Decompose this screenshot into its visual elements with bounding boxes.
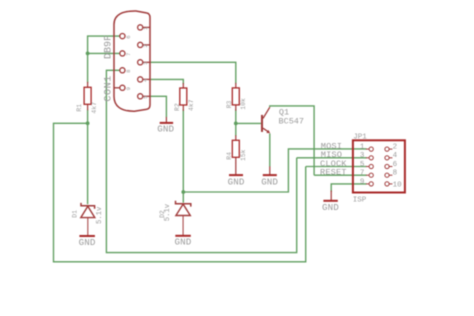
svg-text:9: 9: [360, 178, 365, 186]
JP1 pin 8: [385, 173, 393, 177]
svg-text:GND: GND: [175, 237, 192, 248]
resistor R1: [76, 82, 98, 114]
pin 2: [138, 42, 150, 47]
junction R1/D1 node: [86, 121, 90, 125]
wire pin6 to R1 column: [88, 36, 120, 83]
pin 3: [138, 60, 150, 65]
wire Q1 collector to RESET: [270, 106, 314, 175]
pin 6: [120, 34, 125, 39]
wire R1 bottom to node: [87, 110, 89, 124]
JP1 pin 6: [385, 164, 393, 168]
ground under D1: [79, 236, 96, 248]
ground under JP1 pin9: [322, 191, 339, 214]
svg-text:5: 5: [142, 96, 149, 99]
wire node to D1: [87, 123, 89, 204]
JP1 pin 9: [366, 182, 373, 186]
connector CON1 DB9F outline: [114, 11, 150, 111]
wire R2 bottom to node to D2: [182, 110, 184, 203]
svg-text:1: 1: [360, 144, 365, 152]
svg-text:5: 5: [360, 161, 365, 169]
svg-text:3: 3: [360, 152, 365, 160]
wire CLOCK row: [306, 166, 367, 168]
junction pin7/R1: [86, 52, 90, 56]
ground under Q1 emitter: [261, 166, 278, 187]
junction base node: [234, 122, 238, 126]
wire Q1 emitter to gnd: [269, 134, 271, 167]
junction MOSI/R2/D2 node: [181, 190, 185, 194]
wire pin5 to gnd: [150, 96, 167, 117]
resistor R3: [226, 83, 247, 111]
ground under R4: [228, 163, 245, 187]
connector JP1 box: [353, 140, 405, 192]
ground under DB9 pin5: [157, 117, 174, 135]
svg-text:R2: R2: [174, 103, 181, 111]
wire MOSI row: [183, 149, 366, 192]
pin 8: [120, 68, 125, 73]
svg-text:BC547: BC547: [279, 116, 305, 126]
svg-text:RESET: RESET: [320, 168, 347, 178]
svg-text:2: 2: [142, 44, 149, 47]
pin 5: [138, 94, 150, 99]
svg-text:8: 8: [125, 70, 132, 73]
svg-text:10k: 10k: [240, 98, 247, 110]
JP1 pin 10: [385, 182, 393, 186]
svg-text:GND: GND: [79, 237, 96, 248]
JP1 pin 3: [366, 156, 373, 160]
svg-text:D1: D1: [72, 210, 79, 218]
resistor R4: [226, 135, 247, 163]
svg-text:4k7: 4k7: [91, 102, 98, 114]
wire base node to Q1: [236, 122, 261, 124]
wire R3 bottom to node to R4 top: [235, 109, 237, 136]
svg-text:4: 4: [393, 152, 398, 160]
svg-text:R1: R1: [76, 104, 83, 112]
pin 4: [138, 77, 150, 82]
svg-text:3: 3: [142, 62, 149, 65]
pin 1: [138, 25, 150, 30]
svg-text:GND: GND: [261, 176, 278, 187]
JP1 pin 1: [366, 147, 373, 151]
svg-text:6: 6: [393, 161, 398, 169]
diode D1 zener 5.1v: [72, 203, 104, 236]
JP1 pin 2: [385, 147, 393, 151]
svg-text:6: 6: [125, 35, 132, 38]
svg-text:5.1v: 5.1v: [96, 206, 104, 224]
svg-text:7: 7: [125, 53, 132, 56]
wire node to outer loop: [54, 123, 306, 261]
ground under D2: [175, 236, 192, 248]
wire pin8 to inner loop: [106, 70, 296, 252]
wire JP1 pin9 to gnd: [331, 184, 366, 192]
svg-text:R4: R4: [226, 152, 233, 160]
wire pin4 to R2 top: [150, 79, 184, 84]
JP1 pin 5: [366, 164, 373, 168]
svg-text:9: 9: [125, 87, 132, 90]
svg-text:GND: GND: [157, 124, 174, 135]
svg-text:GND: GND: [322, 202, 339, 213]
resistor R2: [174, 83, 195, 111]
svg-text:2: 2: [393, 144, 398, 152]
svg-text:7: 7: [360, 170, 365, 178]
svg-text:DB9F: DB9F: [104, 35, 115, 59]
diode D2 zener 5.1v: [159, 201, 191, 236]
wire pin3 to R3 top: [150, 62, 236, 83]
wire pin7 stub: [88, 52, 120, 54]
svg-text:15k: 15k: [240, 149, 247, 161]
pin 9: [114, 85, 125, 90]
svg-text:10: 10: [393, 181, 403, 189]
svg-text:R3: R3: [226, 100, 233, 108]
svg-text:CON1: CON1: [104, 75, 115, 101]
JP1 pin 4: [385, 156, 393, 160]
pin 7: [120, 51, 125, 56]
svg-text:GND: GND: [228, 176, 245, 187]
wire RESET row: [314, 174, 366, 176]
svg-text:JP1: JP1: [353, 133, 367, 141]
svg-text:4k7: 4k7: [188, 99, 195, 111]
wire MISO row: [297, 157, 367, 159]
JP1 pin 7: [366, 173, 373, 177]
svg-text:ISP: ISP: [353, 197, 367, 205]
svg-text:5.1v: 5.1v: [164, 203, 172, 221]
svg-text:8: 8: [393, 170, 398, 178]
transistor Q1 BC547: [261, 107, 304, 133]
